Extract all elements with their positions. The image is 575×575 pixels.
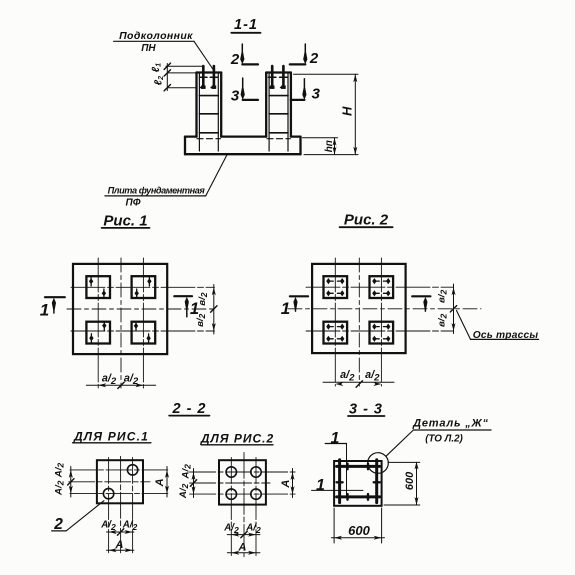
svg-text:1: 1 (281, 299, 290, 318)
leader 2 to hole (52, 501, 104, 533)
section 3-3 column outline (334, 461, 382, 506)
dimension hp (302, 138, 337, 155)
plan fig1 pocket top-right (132, 276, 156, 298)
plan fig1 pocket top-left (86, 276, 110, 298)
figure title Ris.2 (340, 212, 393, 229)
svg-text:А: А (238, 542, 247, 554)
axis of route callout (457, 311, 539, 342)
detail 2-2 fig2 hole bottom-left (226, 489, 236, 499)
detail 2-2 fig2 right dimension A (292, 469, 294, 498)
svg-text:Рис. 2: Рис. 2 (344, 212, 389, 229)
plan fig1 section mark 1 right (174, 296, 199, 318)
section cut mark 2 left (230, 44, 258, 68)
detail circle Zh (368, 453, 389, 474)
svg-text:А: А (280, 480, 292, 489)
svg-text:hп: hп (324, 140, 335, 152)
section title 3-3 (348, 402, 385, 418)
plan fig2 pocket bottom-left (324, 322, 348, 344)
detail label Zh (412, 418, 491, 445)
detail 2-2 fig2 bottom dimensions (227, 534, 260, 536)
detail 2-2 fig1 centerlines (69, 456, 168, 553)
svg-text:А: А (154, 478, 166, 487)
leader 1 top (325, 430, 346, 498)
plan fig2 pocket top-right (370, 276, 394, 298)
svg-text:Плита фундаментная: Плита фундаментная (108, 186, 206, 196)
detail 2-2 fig1 bottom dimensions (107, 531, 134, 533)
callout label Podkolonnik PN (114, 30, 214, 70)
svg-text:А/2: А/2 (245, 523, 261, 535)
svg-text:(ТО Л.2): (ТО Л.2) (425, 433, 463, 444)
plan fig2 section mark 1 left (281, 296, 308, 318)
plan fig1 dimension a/2 a/2 (86, 384, 155, 386)
svg-text:А/2: А/2 (181, 464, 193, 480)
dimension l1 l2 ticks (164, 63, 170, 91)
svg-text:Рис. 1: Рис. 1 (103, 213, 147, 230)
plan fig2 pocket bottom-right (370, 322, 394, 344)
svg-text:1: 1 (331, 430, 340, 447)
plan fig1 slab outline (73, 264, 167, 354)
detail 2-2 fig2 hole top-right (251, 467, 261, 477)
svg-text:Ось трассы: Ось трассы (473, 330, 539, 341)
svg-text:в/2: в/2 (437, 314, 449, 327)
svg-text:ДЛЯ РИС.2: ДЛЯ РИС.2 (200, 431, 274, 445)
svg-text:в/2: в/2 (195, 313, 207, 326)
plan fig1 dimension v/2 v/2 (213, 285, 215, 335)
section 3-3 dimension 600 right (384, 462, 420, 505)
plan fig2 slab outline (312, 264, 406, 353)
svg-text:3: 3 (231, 88, 240, 105)
column pedestal left rungs (199, 96, 218, 133)
section cut mark 3 right (291, 79, 321, 103)
plan fig1 pocket bottom-right (132, 322, 156, 344)
plan fig2 centerlines vertical (335, 258, 381, 386)
svg-text:H: H (339, 106, 354, 116)
subtitle for fig1 (73, 430, 151, 444)
plan fig2 centerlines horizontal (306, 287, 454, 331)
svg-text:Подколонник: Подколонник (119, 30, 193, 42)
subtitle for fig2 (200, 431, 274, 445)
section 3-3 dimension 600 bottom (331, 508, 384, 543)
plan fig1 pocket bottom-left (86, 322, 110, 344)
svg-text:А/2: А/2 (54, 463, 66, 479)
svg-text:А/2: А/2 (223, 523, 239, 535)
plan fig1 centerlines horizontal (71, 287, 215, 331)
detail 2-2 fig2 plate (219, 460, 266, 504)
svg-text:Деталь „Ж“: Деталь „Ж“ (412, 418, 489, 430)
column pedestal right rungs (269, 96, 288, 133)
section 3-3 rebar dots (337, 464, 380, 500)
dimension l1 l2 extension lines (166, 64, 203, 91)
svg-text:А/2: А/2 (54, 480, 66, 496)
column pedestal right outline (266, 73, 291, 137)
column pedestal right inner formwork lines (269, 74, 288, 152)
svg-text:ПН: ПН (141, 43, 156, 54)
svg-text:2: 2 (309, 50, 319, 67)
plan fig1 centerlines vertical (98, 258, 143, 388)
plan fig2 pocket top-left (324, 276, 348, 298)
svg-text:в/2: в/2 (197, 292, 209, 305)
column pedestal left outline (197, 73, 222, 137)
section cut mark 2 right (290, 44, 319, 67)
detail 2-2 fig1 hole bottom-left (103, 488, 113, 498)
svg-text:А: А (115, 539, 124, 551)
section title 2-2 (169, 401, 209, 417)
svg-text:2: 2 (230, 51, 240, 68)
detail 2-2 fig1 right dimension A (166, 467, 168, 498)
plan fig1 section mark 1 left (40, 297, 65, 319)
plan fig1 anchor marks (89, 278, 152, 341)
callout label foundation slab PF (105, 154, 227, 208)
svg-text:1-1: 1-1 (234, 17, 258, 33)
svg-text:2 - 2: 2 - 2 (171, 401, 206, 417)
detail 2-2 fig2 left dimension A/2 A/2 (193, 469, 195, 498)
anchor bolts right column (272, 66, 283, 88)
detail 2-2 fig1 left dimension A/2 A/2 (70, 467, 72, 498)
hidden slab top edge dashed (197, 138, 290, 140)
leader to detail label (386, 430, 414, 456)
figure title Ris.1 (102, 213, 150, 230)
svg-text:А/2: А/2 (178, 483, 190, 499)
detail 2-2 fig2 centerlines (190, 452, 296, 556)
plan fig2 anchor marks (326, 278, 390, 342)
svg-text:600: 600 (348, 523, 370, 538)
leader 1 left (312, 477, 364, 494)
section cut mark 3 left (231, 78, 258, 105)
svg-text:А/2: А/2 (100, 520, 116, 532)
anchor bolts left column (203, 66, 214, 88)
svg-text:ДЛЯ РИС.1: ДЛЯ РИС.1 (73, 430, 149, 444)
detail 2-2 fig1 plate (97, 460, 143, 503)
section title 1-1 (231, 17, 260, 33)
plan fig2 dimension v/2 v/2 (453, 284, 455, 334)
svg-text:600: 600 (404, 471, 416, 490)
section 3-3 rebar cage (337, 460, 380, 503)
column pedestal left inner formwork lines (199, 74, 218, 152)
foundation slab outline (185, 137, 301, 155)
dimension H (294, 74, 359, 154)
svg-text:1: 1 (40, 301, 49, 320)
plan fig2 section mark right (412, 296, 430, 311)
svg-text:ПФ: ПФ (126, 198, 141, 209)
svg-text:А/2: А/2 (122, 520, 138, 532)
svg-text:3: 3 (312, 86, 321, 103)
svg-text:в/2: в/2 (437, 290, 449, 303)
plan fig2 dimension a/2 a/2 (323, 381, 394, 383)
detail 2-2 fig2 hole bottom-right (251, 489, 261, 499)
detail 2-2 fig2 hole top-left (226, 467, 236, 477)
svg-text:1: 1 (316, 477, 325, 494)
detail 2-2 fig1 hole top-right (127, 465, 137, 475)
